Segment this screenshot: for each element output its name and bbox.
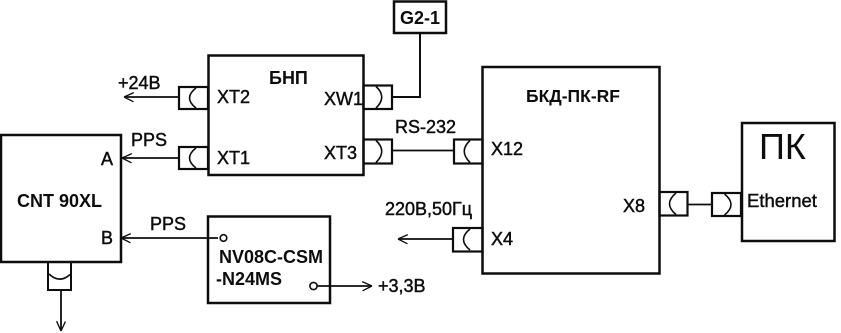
connector Ethernet plug: [712, 193, 741, 216]
pin PPS of NV08C: [220, 235, 227, 242]
svg-text:ПК: ПК: [759, 126, 806, 167]
svg-text:БНП: БНП: [269, 68, 308, 88]
wire XW1 to G2-1: [392, 33, 420, 97]
svg-text:CNT 90XL: CNT 90XL: [17, 191, 102, 211]
wire +24В with arrow: [124, 93, 180, 102]
block ПК: [742, 123, 835, 241]
svg-text:+24В: +24В: [118, 73, 161, 93]
block БКД-ПК-RF: [483, 67, 660, 274]
svg-text:PPS: PPS: [131, 130, 167, 150]
connector X4: [453, 228, 513, 252]
svg-text:-N24MS: -N24MS: [216, 269, 282, 289]
generator G2-1: [394, 2, 446, 34]
wire RS-232: [392, 150, 454, 152]
svg-text:+3,3В: +3,3В: [378, 276, 426, 296]
wire PPS from NV08C to terminal B: [121, 234, 218, 243]
svg-text:XW1: XW1: [324, 89, 363, 109]
block CNT 90XL: [1, 135, 121, 262]
svg-text:RS-232: RS-232: [395, 117, 456, 137]
connector XT1: [179, 147, 250, 169]
svg-text:Ethernet: Ethernet: [747, 190, 817, 211]
wire 220В,50Гц with arrow: [398, 235, 454, 244]
svg-text:PPS: PPS: [150, 214, 186, 234]
module NV08C-CSM-N24MS: [208, 217, 330, 304]
svg-text:B: B: [101, 228, 113, 248]
pin +3,3В of NV08C: [310, 282, 317, 289]
wire antenna out: [57, 290, 66, 331]
connector XT2: [179, 87, 250, 109]
svg-text:X12: X12: [491, 139, 523, 159]
svg-text:БКД-ПК-RF: БКД-ПК-RF: [526, 86, 620, 106]
svg-text:XT2: XT2: [217, 87, 250, 107]
svg-text:X8: X8: [623, 196, 645, 216]
antenna connector below CNT: [48, 262, 71, 290]
connector XW1: [324, 86, 392, 110]
wire PPS to terminal A: [122, 154, 180, 163]
svg-text:X4: X4: [491, 229, 513, 249]
connector X8: [623, 192, 688, 216]
svg-text:G2-1: G2-1: [400, 8, 440, 28]
svg-text:A: A: [101, 149, 113, 169]
block БНП: [209, 56, 364, 176]
wire +3,3В with arrow: [317, 282, 372, 291]
connector X12: [454, 139, 523, 164]
svg-text:XT1: XT1: [217, 148, 250, 168]
svg-text:NV08C-CSM: NV08C-CSM: [219, 247, 323, 267]
connector XT3: [324, 140, 392, 164]
wire X8 to Ethernet: [688, 204, 713, 206]
svg-text:XT3: XT3: [324, 143, 357, 163]
svg-text:220В,50Гц: 220В,50Гц: [385, 199, 472, 219]
